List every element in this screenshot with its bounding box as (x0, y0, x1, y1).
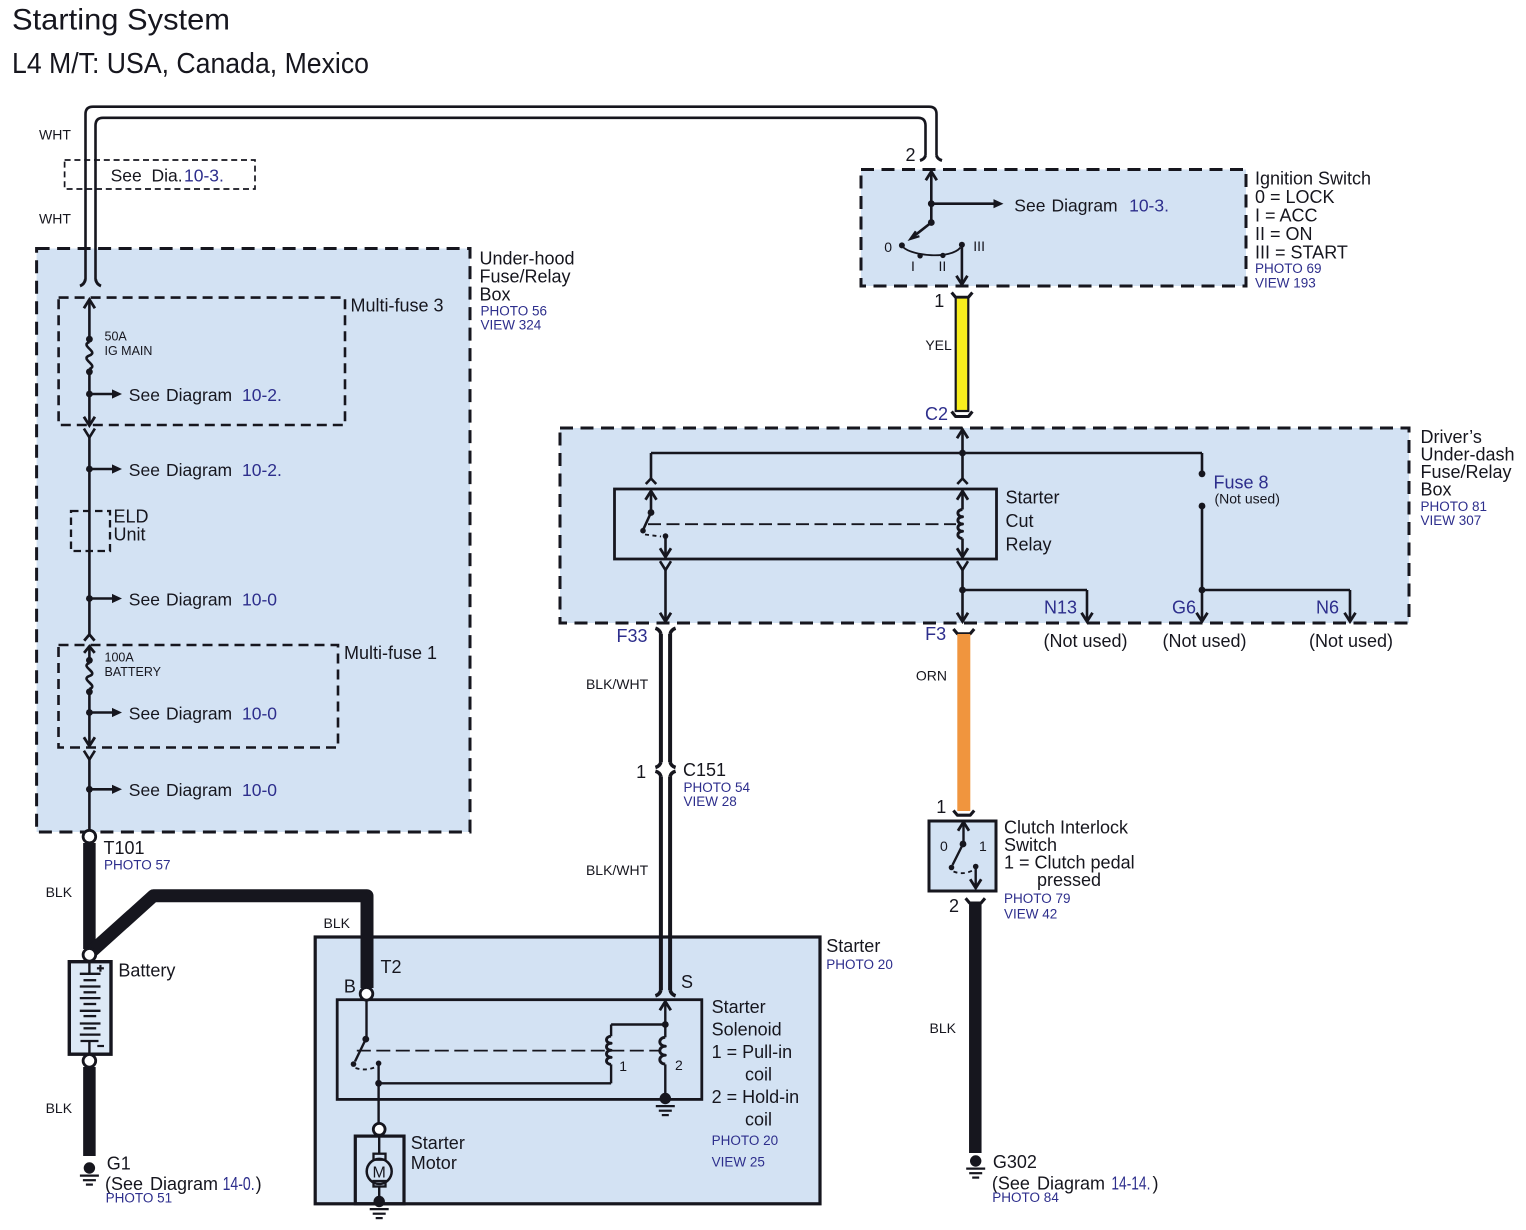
multi-fuse 3 box (59, 298, 345, 425)
label starter solenoid (712, 997, 800, 1170)
relay coil (958, 510, 963, 539)
label 1 (clutch pin) (936, 797, 946, 817)
svg-text:Starter: Starter (712, 997, 766, 1017)
svg-text:Diagram: Diagram (1052, 196, 1118, 216)
wire fuse 8 to G6 (1197, 506, 1208, 622)
ground starter solenoid (656, 1093, 675, 1115)
ground G302 (966, 1155, 985, 1177)
svg-text:VIEW 307: VIEW 307 (1421, 513, 1482, 528)
svg-text:F33: F33 (616, 626, 647, 646)
wire F3 down to box edge (957, 590, 968, 622)
label not used N13 (1043, 631, 1127, 651)
svg-text:BLK/WHT: BLK/WHT (586, 862, 649, 878)
label ignition switch legend (1255, 169, 1371, 291)
svg-text:10-2.: 10-2. (242, 385, 282, 405)
svg-text:BATTERY: BATTERY (105, 665, 162, 679)
ignition contact III to pin 1 (956, 242, 967, 285)
branch arrow See Diagram 10-0 (second) (86, 703, 277, 723)
svg-text:VIEW 193: VIEW 193 (1255, 275, 1316, 290)
ignition see diagram 10-3 branch (928, 196, 1169, 216)
svg-text:Dia.: Dia. (152, 166, 183, 186)
ignition contact 0 (884, 239, 905, 255)
starter motor box (355, 1136, 404, 1204)
svg-text:1: 1 (934, 291, 944, 311)
label driver's under-dash box (1421, 427, 1515, 528)
label multi-fuse 3 (351, 296, 444, 316)
svg-text:(Not used): (Not used) (1309, 631, 1393, 651)
svg-text:G6: G6 (1172, 598, 1196, 618)
label T2 (381, 957, 402, 977)
wire horizontal distribution (651, 452, 1202, 455)
ground G1 (80, 1162, 99, 1184)
svg-text:BLK: BLK (46, 884, 73, 900)
svg-text:50A: 50A (105, 330, 128, 344)
svg-text:1: 1 (936, 797, 946, 817)
label BLK/WHT upper (586, 676, 649, 692)
svg-text:pressed: pressed (1037, 870, 1101, 890)
title text (12, 4, 230, 37)
svg-text:2: 2 (949, 896, 959, 916)
battery (69, 962, 111, 1054)
svg-text:PHOTO 84: PHOTO 84 (992, 1190, 1059, 1205)
wire BLK branch battery to starter B (91, 896, 367, 988)
pull-in coil 1 (606, 1025, 627, 1075)
label 1 (ignition pin) (934, 291, 944, 311)
relay coil entry arrow (957, 491, 968, 510)
svg-text:VIEW 324: VIEW 324 (481, 318, 542, 333)
starter box (315, 937, 820, 1204)
connector C151 (636, 760, 750, 809)
label BLK (clutch) (930, 1020, 957, 1036)
svg-text:VIEW 28: VIEW 28 (684, 794, 737, 809)
branch arrow See Diagram 10-2 (first) (86, 385, 282, 405)
wire bus into multi-fuse 3 with up arrow (84, 300, 95, 340)
label WHT upper (39, 127, 71, 143)
label under-hood fuse/relay box (480, 249, 575, 333)
svg-text:Box: Box (1421, 480, 1452, 500)
svg-text:10-0: 10-0 (242, 780, 277, 800)
svg-text:(Not used): (Not used) (1162, 631, 1246, 651)
terminal B junction (360, 988, 373, 1001)
boundary fork below multi-fuse 3 (84, 429, 95, 469)
solenoid mechanical dashed line (357, 1050, 661, 1052)
label 1 (clutch inside) (979, 838, 987, 854)
svg-text:Diagram: Diagram (166, 780, 232, 800)
fork above relay (contact side) (646, 479, 656, 485)
junction battery positive (83, 949, 96, 962)
svg-text:(Not used): (Not used) (1043, 631, 1127, 651)
multi-fuse 1 box (59, 645, 339, 748)
svg-text:PHOTO 20: PHOTO 20 (712, 1133, 779, 1148)
label BLK (battery top) (46, 884, 73, 900)
svg-text:10-2.: 10-2. (242, 460, 282, 480)
wire node to multi-fuse 3 bottom edge (84, 394, 95, 426)
svg-text:PHOTO 69: PHOTO 69 (1255, 261, 1322, 276)
svg-text:Motor: Motor (411, 1153, 457, 1173)
svg-text:I: I (911, 258, 915, 274)
under-hood fuse/relay box (37, 249, 470, 833)
wire branch to N13 (963, 590, 1093, 622)
svg-text:Unit: Unit (114, 525, 146, 545)
clutch switch internals (949, 822, 982, 888)
branch arrow See Diagram 10-2 (second) (86, 460, 282, 480)
wire BLK/WHT C151 to S (655, 776, 675, 995)
svg-text:PHOTO 20: PHOTO 20 (826, 957, 893, 972)
svg-text:See: See (129, 589, 160, 609)
svg-text:10-0: 10-0 (242, 703, 277, 723)
svg-text:BLK: BLK (324, 915, 351, 931)
wire node to ELD (88, 469, 91, 511)
hold-in coil 2 (660, 1025, 683, 1074)
svg-text:III: III (973, 238, 985, 254)
label C2 (925, 404, 948, 424)
svg-text:0: 0 (940, 838, 948, 854)
starter cut relay box (615, 489, 997, 559)
branch arrow See Diagram 10-0 (third) (86, 780, 277, 800)
wire coil1 top to node (611, 1021, 669, 1028)
wire fuse to node (88, 372, 91, 394)
svg-text:10-3.: 10-3. (1129, 196, 1169, 216)
svg-text:): ) (1153, 1174, 1159, 1194)
svg-text:Diagram: Diagram (166, 385, 232, 405)
svg-text:coil: coil (745, 1110, 772, 1130)
wire solenoid switch to motor (377, 1083, 379, 1123)
arrow into multi-fuse 1 (84, 646, 95, 660)
label BLK (battery bottom) (46, 1100, 73, 1116)
relay coil out arrow (957, 539, 968, 558)
fork above multi-fuse 1 (84, 635, 94, 641)
label WHT lower (39, 211, 71, 227)
svg-text:ELD: ELD (114, 507, 149, 527)
svg-text:Starter: Starter (1006, 488, 1060, 508)
label clutch interlock switch (1004, 818, 1135, 922)
svg-text:10-0: 10-0 (242, 589, 277, 609)
svg-text:VIEW 42: VIEW 42 (1004, 907, 1057, 922)
clutch interlock switch box (929, 821, 996, 891)
wire node to pull-in coil (379, 1064, 611, 1083)
svg-text:Starter: Starter (411, 1133, 465, 1153)
svg-text:10-3.: 10-3. (184, 166, 224, 186)
svg-text:See: See (129, 460, 160, 480)
svg-text:See: See (129, 385, 160, 405)
terminal T101 (83, 830, 170, 872)
svg-text:Ignition Switch: Ignition Switch (1255, 169, 1371, 189)
label II (939, 258, 947, 274)
svg-text:Diagram: Diagram (166, 589, 232, 609)
svg-text:100A: 100A (105, 651, 135, 665)
svg-text:Starting System: Starting System (12, 4, 230, 37)
svg-text:Relay: Relay (1006, 535, 1052, 555)
fork below relay (contact side) (660, 561, 671, 614)
fuse 100A BATTERY (86, 651, 162, 696)
svg-text:14-0.: 14-0. (223, 1174, 255, 1194)
svg-text:Box: Box (480, 285, 511, 305)
wire BLK/WHT F33 to C151 (655, 628, 675, 767)
fuse 8 (not used) stub (1199, 470, 1280, 509)
wire ORN F3 to clutch switch (953, 629, 974, 815)
node G6/N6 branch (1199, 587, 1206, 594)
svg-text:G1: G1 (107, 1153, 131, 1173)
svg-text:I = ACC: I = ACC (1255, 206, 1318, 226)
solenoid contact to node (375, 1063, 382, 1086)
boundary fork below multi-fuse 1 (84, 751, 95, 790)
label starter cut relay (1006, 488, 1060, 555)
label ORN (916, 668, 947, 684)
label N13 (1044, 598, 1077, 618)
wire WHT double-line from diagram 10-3 to ignition switch and under-hood box (80, 107, 942, 286)
fuse 50A IG MAIN (86, 330, 152, 376)
svg-text:VIEW 25: VIEW 25 (712, 1155, 765, 1170)
svg-text:WHT: WHT (39, 211, 71, 227)
ground starter motor (370, 1196, 389, 1218)
svg-text:WHT: WHT (39, 127, 71, 143)
label F33 (616, 626, 647, 646)
wire branch to N6 (1202, 590, 1356, 622)
svg-text:See: See (129, 780, 160, 800)
svg-text:N13: N13 (1044, 598, 1077, 618)
node on C2 line (959, 450, 966, 457)
label not used N6 (1309, 631, 1393, 651)
svg-text:III = START: III = START (1255, 243, 1348, 263)
label G1 (105, 1153, 262, 1205)
label multi-fuse 1 (344, 643, 437, 663)
solenoid contact dots (351, 1061, 382, 1070)
ELD unit box (71, 507, 149, 552)
svg-text:II: II (939, 258, 947, 274)
svg-text:1 = Pull-in: 1 = Pull-in (712, 1042, 793, 1062)
svg-text:Cut: Cut (1006, 511, 1034, 531)
svg-text:YEL: YEL (925, 337, 952, 353)
ignition rotor arm (910, 204, 934, 239)
wire ELD to node (88, 511, 91, 599)
svg-text:Diagram: Diagram (166, 460, 232, 480)
svg-text:1: 1 (636, 762, 646, 782)
svg-text:See: See (129, 703, 160, 723)
label not used G6 (1162, 631, 1246, 651)
svg-text:S: S (681, 972, 693, 992)
svg-text:T101: T101 (104, 838, 145, 858)
svg-text:14-14.: 14-14. (1111, 1174, 1150, 1194)
svg-text:coil: coil (745, 1065, 772, 1085)
label 2 (ignition connector) (905, 145, 915, 165)
label G6 (1172, 598, 1196, 618)
solenoid switch (355, 1000, 369, 1062)
node F3 branch (959, 587, 966, 594)
svg-text:1: 1 (619, 1058, 627, 1074)
wire BLK clutch to G302 (966, 898, 985, 1153)
fork below relay (coil side) (957, 561, 968, 590)
label S (681, 972, 693, 992)
svg-text:Multi-fuse 1: Multi-fuse 1 (344, 643, 437, 663)
svg-text:2 = Hold-in: 2 = Hold-in (712, 1087, 800, 1107)
svg-text:PHOTO 79: PHOTO 79 (1004, 891, 1071, 906)
junction battery negative (83, 1055, 96, 1068)
wire BLK battery to G1 (83, 1067, 96, 1156)
label BLK (starter branch) (324, 915, 351, 931)
svg-text:II = ON: II = ON (1255, 224, 1313, 244)
starter motor symbol (367, 1135, 392, 1198)
label starter motor (411, 1133, 465, 1173)
svg-text:0 = LOCK: 0 = LOCK (1255, 187, 1335, 207)
wire coil2 to solenoid ground (664, 1064, 666, 1096)
svg-text:ORN: ORN (916, 668, 947, 684)
svg-text:Fuse/Relay: Fuse/Relay (480, 267, 571, 287)
svg-text:BLK: BLK (930, 1020, 957, 1036)
svg-text:F3: F3 (925, 624, 946, 644)
svg-text:C2: C2 (925, 404, 948, 424)
wire fuse to node (88, 692, 91, 713)
svg-text:BLK: BLK (46, 1100, 73, 1116)
label battery (118, 961, 175, 981)
label BLK/WHT lower (586, 862, 649, 878)
wire BLK T101 to battery junction (83, 843, 96, 949)
junction starter motor (373, 1123, 385, 1135)
ignition switch box (861, 170, 1246, 287)
wire YEL ignition to C2 (952, 293, 973, 417)
subtitle text (12, 48, 369, 80)
ignition contact arc (904, 248, 961, 259)
svg-text:See: See (111, 166, 142, 186)
fork above relay (coil side) (957, 453, 967, 484)
C2 entry arrow into driver's box (957, 430, 968, 454)
reference box See Dia. 10-3 (65, 160, 255, 189)
svg-text:T2: T2 (381, 957, 402, 977)
label starter (826, 936, 893, 972)
svg-text:PHOTO 51: PHOTO 51 (106, 1190, 173, 1205)
wire node to multi-fuse 1 (88, 599, 91, 635)
svg-text:Under-hood: Under-hood (480, 249, 575, 269)
svg-text:): ) (256, 1174, 262, 1194)
relay mechanical dashed line (648, 523, 956, 525)
label B (344, 977, 356, 997)
wire node to under-hood box bottom edge (88, 789, 91, 831)
svg-text:2: 2 (675, 1057, 683, 1073)
svg-text:PHOTO 57: PHOTO 57 (104, 857, 171, 872)
svg-text:PHOTO 81: PHOTO 81 (1421, 499, 1488, 514)
svg-text:See: See (1014, 196, 1045, 216)
label N6 (1316, 598, 1339, 618)
svg-text:C151: C151 (683, 760, 726, 780)
relay contact entry arrow (646, 491, 657, 513)
relay contact dots and dashed link (640, 528, 668, 539)
label YEL (925, 337, 952, 353)
svg-text:PHOTO 56: PHOTO 56 (481, 304, 548, 319)
svg-text:Battery: Battery (118, 961, 175, 981)
relay switch arm (644, 509, 655, 529)
starter solenoid box (337, 1000, 702, 1100)
label III (973, 238, 985, 254)
wire node to multi-fuse 1 bottom (84, 713, 95, 747)
label I (911, 258, 915, 274)
driver's under-dash fuse/relay box (560, 428, 1409, 623)
svg-text:N6: N6 (1316, 598, 1339, 618)
relay contact out arrow (660, 536, 671, 557)
svg-text:G302: G302 (993, 1152, 1037, 1172)
svg-text:BLK/WHT: BLK/WHT (586, 676, 649, 692)
label G302 (992, 1152, 1159, 1205)
svg-text:0: 0 (884, 239, 892, 255)
label 0 (clutch) (940, 838, 948, 854)
svg-text:2: 2 (905, 145, 915, 165)
branch arrow See Diagram 10-0 (first) (86, 589, 277, 609)
S entry arrow (660, 1002, 671, 1025)
svg-text:Starter: Starter (826, 936, 880, 956)
ignition pin 2 entry arrow (926, 172, 937, 204)
svg-text:PHOTO 54: PHOTO 54 (684, 780, 751, 795)
svg-text:(Not used): (Not used) (1215, 490, 1280, 506)
wire fuse 8 branch corner (1201, 453, 1204, 474)
svg-text:Solenoid: Solenoid (712, 1020, 782, 1040)
svg-text:Diagram: Diagram (166, 703, 232, 723)
label 2 (clutch pin) (949, 896, 959, 916)
wire branch down to relay contact (650, 453, 653, 479)
label F3 (925, 624, 946, 644)
svg-text:L4 M/T: USA, Canada, Mexico: L4 M/T: USA, Canada, Mexico (12, 48, 369, 80)
svg-text:1: 1 (979, 838, 987, 854)
svg-text:IG MAIN: IG MAIN (105, 344, 153, 358)
svg-text:Multi-fuse 3: Multi-fuse 3 (351, 296, 444, 316)
F33 exit arrow (660, 613, 671, 622)
svg-text:B: B (344, 977, 356, 997)
svg-text:M: M (373, 1164, 386, 1181)
